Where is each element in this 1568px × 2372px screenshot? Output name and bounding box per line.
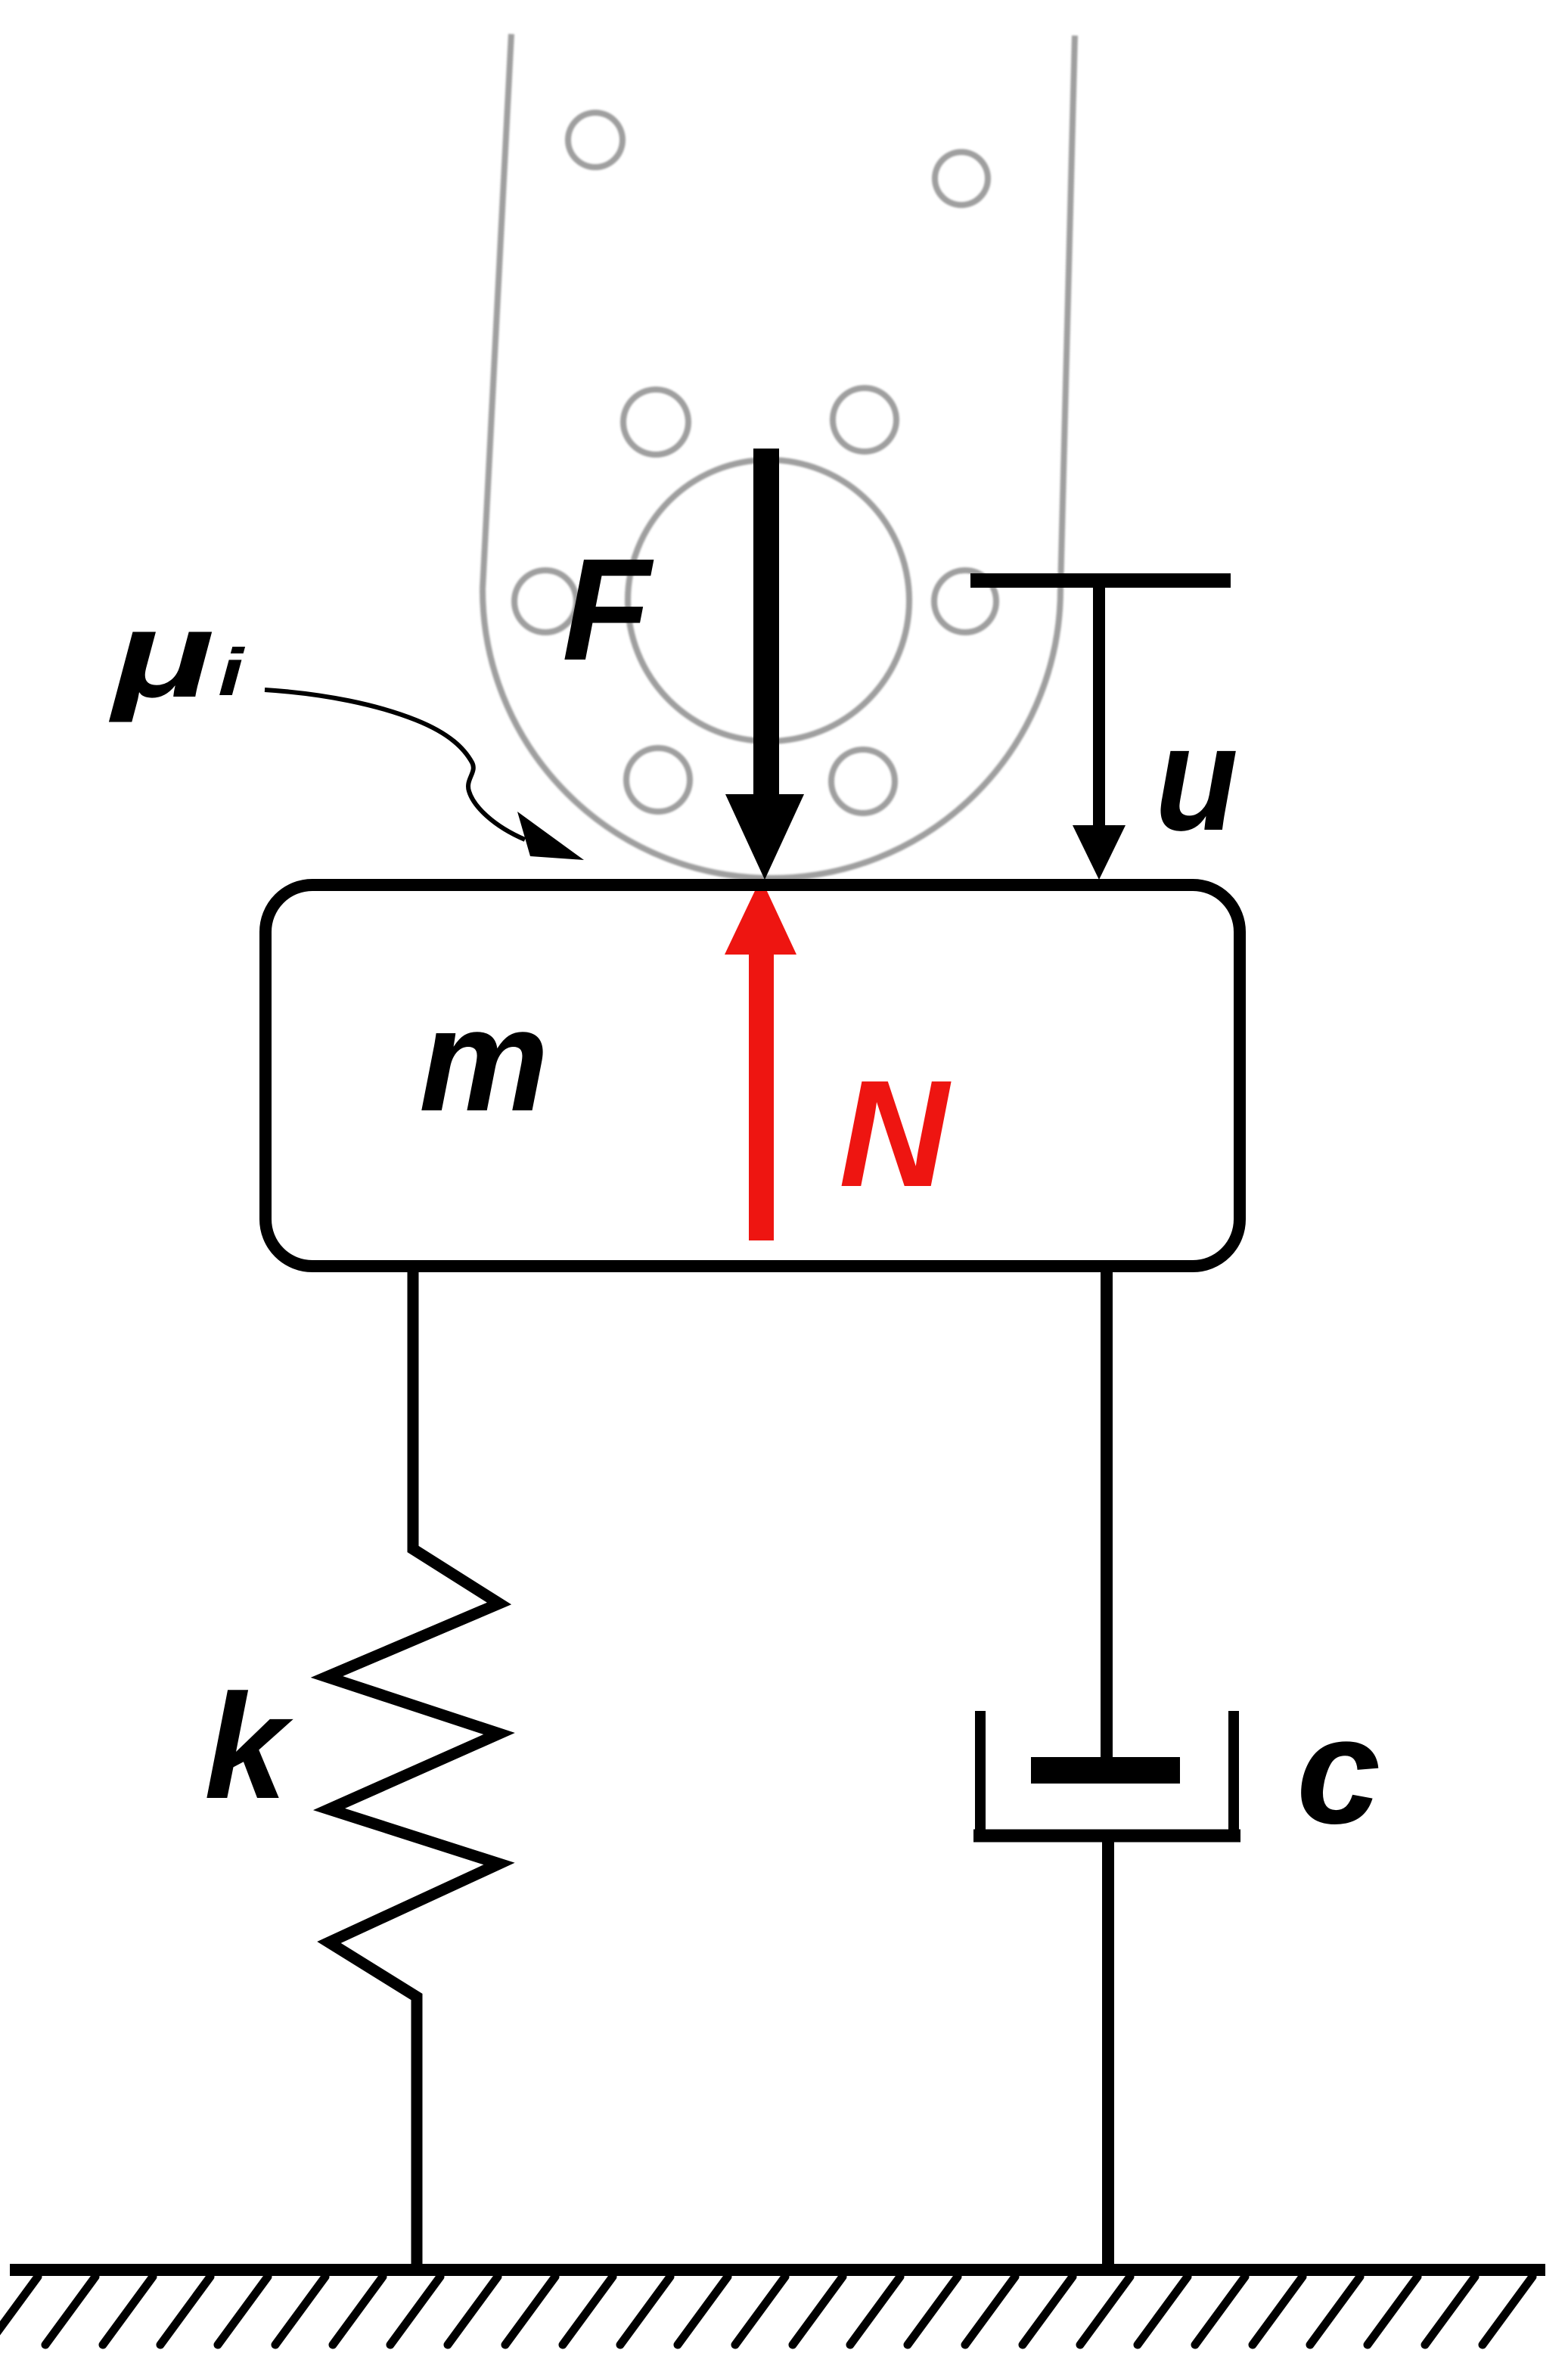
svg-text:N: N — [839, 1048, 952, 1219]
svg-text:k: k — [204, 1663, 293, 1830]
svg-text:c: c — [1296, 1687, 1380, 1855]
svg-text:μ: μ — [109, 586, 214, 723]
svg-text:u: u — [1155, 695, 1238, 862]
svg-text:F: F — [562, 528, 654, 691]
svg-text:m: m — [419, 978, 549, 1141]
svg-text:i: i — [218, 635, 245, 709]
